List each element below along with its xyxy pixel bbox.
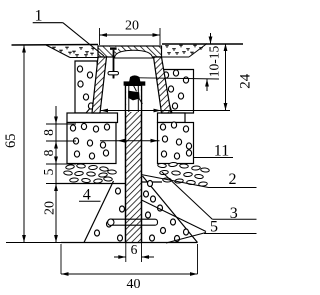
svg-text:65: 65 [3, 133, 19, 148]
svg-text:2: 2 [229, 171, 237, 188]
svg-text:8: 8 [41, 149, 56, 156]
svg-text:1: 1 [35, 8, 43, 25]
svg-text:20: 20 [125, 19, 139, 34]
svg-text:5: 5 [210, 219, 218, 236]
svg-text:6: 6 [131, 242, 138, 257]
svg-text:8: 8 [41, 129, 56, 136]
svg-text:40: 40 [127, 277, 141, 292]
svg-text:20: 20 [43, 201, 58, 215]
svg-text:5: 5 [41, 168, 56, 175]
svg-text:24: 24 [238, 73, 254, 89]
svg-text:11: 11 [214, 143, 229, 160]
svg-text:10-15: 10-15 [207, 46, 222, 78]
svg-text:3: 3 [230, 205, 238, 222]
